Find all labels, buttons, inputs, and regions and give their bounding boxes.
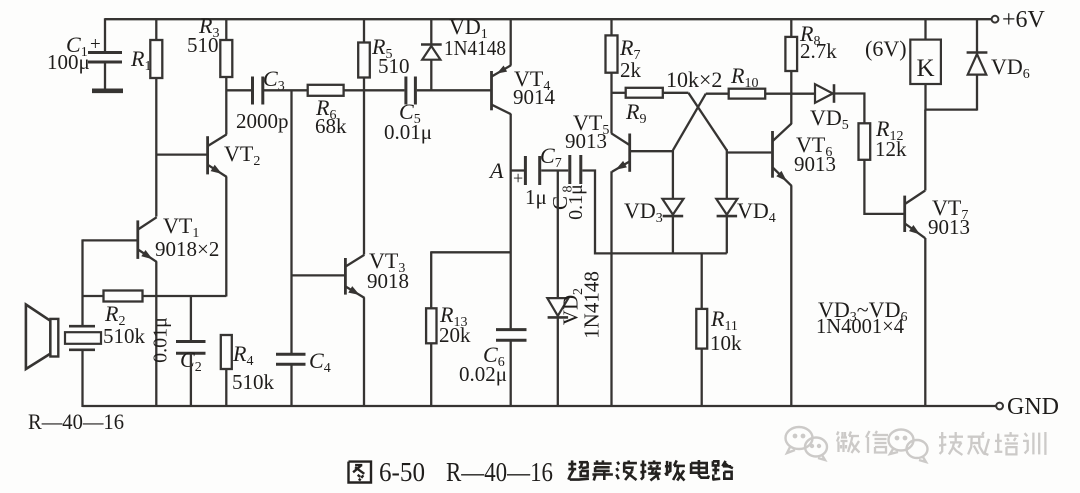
wire R2 rail left (83, 295, 104, 297)
wire R3 to VT2 collector (225, 77, 227, 135)
svg-text:510: 510 (187, 33, 219, 57)
wire VT7 collector up (924, 110, 926, 191)
diode VD2 (547, 298, 568, 316)
wire detector bus (611, 252, 727, 254)
wire C5 right (417, 89, 491, 91)
svg-text:510: 510 (378, 54, 410, 78)
wire VT5 base line (631, 150, 673, 152)
svg-text:10k: 10k (710, 331, 742, 355)
wire VD4 top (726, 149, 728, 199)
capacitor C1 (88, 51, 122, 54)
svg-text:9018×2: 9018×2 (155, 237, 219, 261)
wire VD3 top (672, 150, 674, 199)
svg-text:R—40—16: R—40—16 (28, 409, 124, 434)
wire cross diagonal B (673, 94, 706, 151)
wire VD2 top (557, 171, 559, 299)
resistor R11 (696, 309, 707, 349)
wire VD6 bottom (976, 75, 978, 111)
wire transducer bottom (81, 350, 83, 407)
capacitor C2 (176, 340, 206, 343)
wire VT2 base line (156, 153, 206, 155)
svg-text:+6V: +6V (1002, 7, 1046, 33)
svg-text:510k: 510k (103, 324, 146, 348)
resistor R9 (626, 88, 663, 98)
svg-text:9013: 9013 (794, 152, 836, 176)
wire A to R13 (431, 251, 511, 253)
resistor R2 (104, 291, 143, 302)
wire VD3 bottom (672, 216, 674, 253)
wire VT3 base line (292, 274, 346, 276)
wire R10 right (765, 93, 815, 95)
svg-text:0.02μ: 0.02μ (459, 362, 507, 386)
wire K bottom (924, 84, 926, 111)
diode VD6 (967, 51, 988, 54)
diode VD5 (815, 84, 833, 103)
wire K to VD6 (925, 108, 978, 110)
svg-text:68k: 68k (315, 114, 347, 138)
svg-text:10k×2: 10k×2 (666, 67, 722, 92)
svg-text:1N4148: 1N4148 (580, 271, 604, 339)
svg-text:12k: 12k (875, 137, 907, 161)
transistor VT2 (206, 136, 209, 174)
svg-text:6-50: 6-50 (379, 457, 425, 487)
wire R8 to VT6 collector (790, 71, 792, 124)
wire cross diagonal A (688, 93, 726, 151)
watermark text jicheng peixun (940, 432, 943, 454)
caption hanzi 6 (713, 461, 718, 465)
wire R2 rail right (143, 295, 227, 297)
wire VT6 base line (727, 151, 772, 153)
capacitor C6 (496, 328, 527, 331)
svg-text:A: A (488, 158, 504, 183)
resistor R10 (729, 89, 766, 99)
wire R1 to VT1 collector (155, 78, 157, 217)
wire VT3 emitter down (363, 298, 365, 407)
wire VT1 base line (83, 239, 138, 241)
resistor R1 (150, 40, 162, 78)
capacitor C4 (276, 353, 306, 356)
wire diagB to R10 (706, 93, 729, 95)
svg-text:+: + (90, 34, 101, 55)
svg-text:0.01μ: 0.01μ (384, 120, 432, 144)
wire VT7 emitter down (924, 238, 926, 406)
wire base column left (81, 239, 83, 326)
transducer B piezo element (69, 325, 95, 328)
wire C1 bottom (104, 62, 106, 89)
resistor R4 (221, 335, 232, 369)
wire C2 top (190, 296, 192, 342)
svg-text:1N4148: 1N4148 (444, 36, 506, 60)
svg-text:20k: 20k (439, 323, 471, 347)
wire R7 node to R9 (612, 92, 626, 94)
svg-text:R—40—16: R—40—16 (446, 457, 553, 487)
resistor R8 (785, 37, 797, 71)
diode VD1 (421, 43, 442, 46)
svg-text:1μ: 1μ (525, 185, 547, 209)
wire VT2 emitter down (225, 177, 227, 297)
caption hanzi 3 (641, 460, 643, 479)
svg-text:9013: 9013 (928, 215, 970, 239)
resistor R3 (220, 40, 232, 77)
capacitor C7 (524, 156, 527, 185)
svg-text:0.1μ: 0.1μ (565, 184, 587, 220)
svg-text:2000p: 2000p (236, 109, 289, 133)
wire VD2 bottom (557, 317, 559, 406)
wire C4 bottom (290, 364, 292, 406)
wire R8 top (790, 18, 792, 37)
wire VT4 emitter to rail (510, 18, 512, 65)
diode VD3 (662, 199, 683, 215)
wire R9 right (663, 92, 689, 94)
wire C8 right corner (582, 171, 611, 254)
resistor R13 (426, 308, 436, 343)
wire R7 top (610, 18, 612, 35)
wire VT4 collector down (510, 114, 512, 171)
wire C1 top (104, 18, 106, 52)
wire VD1 top (430, 18, 432, 44)
wire VD5 right (834, 94, 864, 124)
resistor R12 (859, 123, 871, 160)
wire R1 top (155, 18, 157, 40)
wire C5 left (364, 89, 404, 91)
wire +6V top supply rail (105, 18, 991, 20)
capacitor C5 (404, 77, 407, 105)
capacitor C8 (568, 155, 571, 184)
svg-text:9018: 9018 (367, 269, 409, 293)
wire C6 top (510, 170, 512, 330)
capacitor C3 (251, 77, 254, 105)
wire VT6 emitter down (790, 185, 792, 406)
relay K (910, 40, 941, 84)
wire R7 bottom (610, 73, 612, 134)
resistor R5 (358, 43, 370, 78)
transistor VT5 (628, 134, 631, 172)
svg-text:GND: GND (1007, 394, 1059, 420)
caption hanzi 5 (698, 460, 701, 476)
wire C3 left (226, 89, 251, 91)
caption hanzi 0 (571, 460, 574, 469)
caption hanzi 1 (596, 460, 599, 463)
resistor R7 (606, 35, 618, 72)
wire R11 top (701, 253, 703, 309)
svg-text:2.7k: 2.7k (800, 39, 837, 63)
resistor R6 (308, 85, 344, 96)
wire VD4 bottom (726, 216, 728, 253)
caption hanzi 4 (666, 461, 669, 476)
wire R12 to VT7 base (864, 160, 904, 214)
svg-text:100μ: 100μ (47, 50, 90, 74)
watermark wechat bubbles icon 2 (889, 430, 928, 463)
wire R13 bottom (430, 343, 432, 406)
speaker symbol (26, 305, 51, 370)
transistor VT3 (344, 258, 347, 295)
watermark text weixin (837, 432, 839, 436)
wire C7 to C8 (541, 169, 568, 171)
svg-text:510k: 510k (232, 370, 275, 394)
wire VT5 emitter down (610, 171, 612, 406)
node +6V terminal (992, 16, 999, 23)
svg-text:9013: 9013 (565, 129, 607, 153)
svg-text:K: K (916, 55, 934, 82)
svg-text:(6V): (6V) (865, 36, 907, 61)
wire C2 bottom (190, 353, 192, 406)
ground (92, 89, 123, 94)
caption hanzi 2 (617, 462, 619, 465)
wire GND bottom rail (83, 405, 997, 407)
wire R4 bottom (225, 369, 227, 406)
transistor VT7 (903, 196, 906, 232)
wire R3 top (225, 18, 227, 40)
wire C6 bottom (510, 340, 512, 406)
watermark wechat bubbles icon (786, 427, 828, 460)
wire VD6 top (976, 18, 978, 52)
transistor VT1 (136, 220, 139, 259)
wire R13 top (430, 251, 432, 308)
svg-text:+: + (513, 168, 523, 188)
wire node B column (290, 90, 292, 354)
transistor VT6 (771, 131, 774, 178)
svg-text:0.01μ: 0.01μ (150, 317, 172, 363)
wire R11 bottom (701, 349, 703, 406)
wire VT1 emitter down (155, 262, 157, 407)
wire R5 to VT3 collector (363, 78, 365, 255)
wire R5 top (363, 18, 365, 42)
node GND terminal (996, 403, 1003, 410)
caption hanzi tu (349, 462, 372, 483)
wire K top (924, 18, 926, 39)
wire R6 right (344, 89, 364, 91)
svg-text:1N4001×4: 1N4001×4 (816, 314, 904, 338)
svg-text:2k: 2k (620, 58, 642, 82)
wire A to C7 (511, 169, 524, 171)
diode VD4 (716, 199, 737, 215)
wire C3 right (264, 89, 308, 91)
transistor VT4 (490, 71, 493, 110)
svg-text:9014: 9014 (513, 85, 556, 109)
